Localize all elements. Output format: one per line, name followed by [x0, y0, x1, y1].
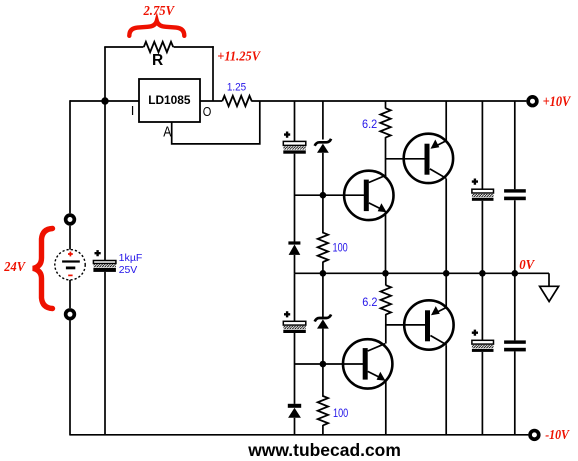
wire zener Z1 to node [322, 153, 324, 234]
wire resistor 100 lower to bottom rail [322, 425, 324, 435]
node dot 0V x=446.2 [443, 270, 450, 277]
svg-text:R: R [152, 52, 163, 69]
0V rail [295, 272, 550, 274]
wire cap C4 to lower tee [294, 333, 296, 404]
wire battery to bottom terminal [69, 280, 71, 308]
wire 1kuF cap to bottom rail [104, 272, 106, 435]
wire resistor 100 to 0V rail [322, 262, 324, 274]
capacitor 1kuF electrolytic [93, 250, 116, 272]
svg-text:2.75V: 2.75V [143, 3, 175, 18]
capacitor C3 film upper-right [504, 189, 526, 200]
zener Z2 lower [315, 315, 331, 329]
resistor 1.25 [222, 96, 251, 106]
svg-text:+11.25V: +11.25V [217, 48, 261, 63]
wire column x=514.8 upper: rail to cap C3 [514, 101, 516, 189]
wire adjust pin loop [172, 101, 260, 144]
svg-text:100: 100 [333, 240, 348, 254]
capacitor C4 electrolytic lower-left [283, 311, 306, 333]
wire column x=322.9 upper: rail to zener Z1 [322, 101, 324, 140]
wire base tee lower NPN y=364 [295, 363, 364, 365]
wire left vertical x=70 top segment [69, 100, 71, 213]
svg-text:25V: 25V [119, 264, 138, 276]
wire diode D1 to 0V rail [294, 255, 296, 273]
wire column x=385.8 lower: 0V rail to 6.2 resistor [385, 273, 387, 285]
wire cap C3 to 0V rail [514, 200, 516, 273]
wire R-loop top left segment [104, 46, 143, 48]
brace 2.75V [129, 21, 184, 36]
resistor 6.2 lower [381, 285, 391, 314]
wire base tee upper PNP y=158.8 [386, 158, 426, 160]
wire column x=385.5 upper: rail to 6.2 resistor [385, 101, 387, 108]
capacitor C6 film lower-right [504, 340, 526, 351]
resistor 6.2 upper [380, 108, 390, 137]
terminal raw- bottom left [66, 310, 75, 319]
wire R-loop right vertical x=213 [212, 46, 214, 101]
capacitor C1 electrolytic upper-left [283, 132, 306, 154]
svg-text:A: A [163, 125, 171, 141]
node dot 0V x=322.9 [320, 270, 327, 277]
wire regulator output to 1.25 resistor [200, 100, 222, 102]
svg-text:6.2: 6.2 [362, 295, 377, 309]
zener Z1 upper [315, 139, 331, 153]
ground symbol [540, 273, 559, 301]
transistor Q1 NPN upper [344, 171, 393, 220]
node dot 0V x=514.8 [512, 270, 519, 277]
wire lower PNP collector to bottom rail [445, 345, 447, 435]
resistor 100 lower [318, 396, 328, 425]
resistor 100 upper [318, 233, 328, 262]
svg-text:O: O [203, 104, 212, 119]
wire 6.2 lower down to NPN collector junction [385, 314, 387, 343]
wire column x=482.4 upper: rail to cap C2 [481, 101, 483, 189]
wire column x=322.9 lower: 0V rail to zener Z2 [322, 273, 324, 317]
wire base tee upper NPN y=195.2 [295, 194, 365, 196]
svg-text:0V: 0V [519, 258, 535, 273]
svg-text:+10V: +10V [543, 94, 572, 110]
transistor Q3 NPN lower [343, 339, 392, 388]
terminal -10V [530, 431, 539, 440]
wire cap C5 to bottom rail [481, 352, 483, 435]
regulator U1 LD1085 box [139, 79, 200, 122]
wire R-loop top right segment [174, 46, 214, 48]
wire column x=294.5 lower: 0V rail to cap C4 [294, 273, 296, 321]
wire zener Z2 to node [322, 329, 324, 397]
wire column x=105: dot to 1kuF cap [104, 101, 106, 261]
svg-text:100: 100 [333, 406, 348, 420]
wire terminal to battery [69, 226, 71, 250]
wire cap C1 to tee [294, 154, 296, 242]
terminal raw+ top left [66, 215, 75, 224]
resistor R [144, 42, 173, 52]
wire 6.2 resistor down to NPN collector junction [385, 137, 387, 175]
terminal +10V [528, 97, 537, 106]
svg-text:LD1085: LD1085 [148, 93, 191, 107]
capacitor C5 electrolytic lower-right [472, 330, 494, 352]
brace 24V [33, 229, 53, 309]
wire NPN emitter junction down to 0V rail [385, 212, 387, 273]
wire column x=446.2 upper: rail to PNP emitter [445, 101, 447, 141]
wire column x=294.5 upper: rail to cap C1 [294, 101, 296, 141]
wire base tee lower PNP y=324.9 [386, 324, 426, 326]
wire column x=482.4 lower: 0V rail to cap C5 [481, 273, 483, 340]
svg-text:I: I [131, 103, 135, 118]
svg-text:-10V: -10V [545, 428, 570, 443]
svg-text:6.2: 6.2 [362, 117, 377, 131]
node dot 0V x=385.5 [382, 270, 389, 277]
wire main input y=101 from left corner to regulator [70, 100, 139, 102]
wire R-loop left vertical x=105 [104, 47, 106, 101]
battery source BT1 dashed circle [55, 250, 85, 280]
bottom rail -10V [70, 434, 528, 436]
node dot 0V x=482.4 [479, 270, 486, 277]
diode D1 upper [288, 241, 300, 255]
wire bottom-left vertical to bottom rail [69, 321, 71, 436]
wire top rail y=101 to +10V terminal [251, 100, 526, 102]
svg-text:1.25: 1.25 [227, 82, 246, 94]
node dot x=322.9 y=195.2 [320, 192, 327, 199]
wire column x=446.2 lower: 0V rail to PNP emitter [445, 273, 447, 307]
wire PNP collector to 0V rail [445, 179, 447, 274]
wire diode D2 to bottom rail [294, 418, 296, 435]
wire column x=514.8 lower: 0V rail to cap C6 [514, 273, 516, 340]
transistor Q2 PNP upper [404, 134, 453, 183]
node A junction dot at 105,101 [101, 97, 108, 104]
diode D2 lower [288, 404, 301, 418]
wire lower NPN emitter junction to bottom rail [385, 380, 387, 435]
wire cap C6 to bottom rail [514, 351, 516, 434]
node dot x=322.9 y=364 [320, 361, 327, 368]
transistor Q4 PNP lower [404, 300, 453, 349]
svg-text:24V: 24V [3, 259, 26, 274]
capacitor C2 electrolytic upper-right [472, 179, 494, 201]
svg-text:1kµF: 1kµF [119, 252, 143, 264]
svg-text:www.tubecad.com: www.tubecad.com [247, 440, 401, 460]
wire cap C2 to 0V rail [481, 201, 483, 273]
